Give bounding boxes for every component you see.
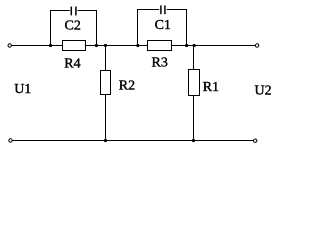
svg-text:C2: C2 [65,19,81,34]
svg-text:R3: R3 [152,55,168,70]
svg-text:C1: C1 [155,18,171,33]
svg-text:U2: U2 [255,84,272,99]
svg-text:R4: R4 [64,57,80,72]
svg-text:R1: R1 [203,80,219,95]
svg-text:R2: R2 [119,79,135,94]
svg-text:U1: U1 [14,82,31,97]
